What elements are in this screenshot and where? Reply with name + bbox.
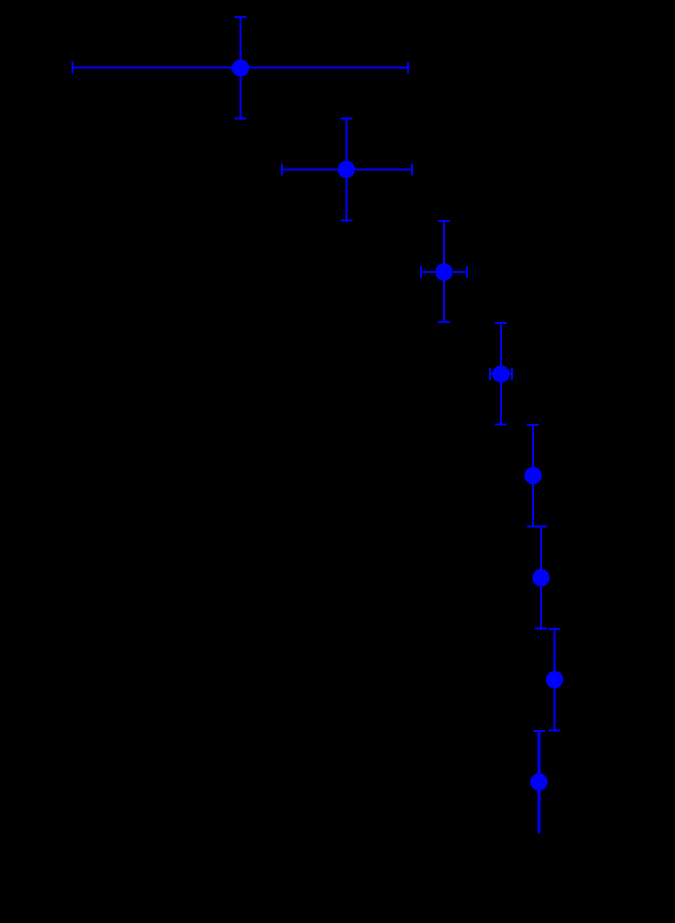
data point 6: error bars bbox=[535, 527, 547, 629]
data point 4: error bars bbox=[490, 323, 512, 425]
data point 8: marker bbox=[530, 773, 547, 790]
data point 2: error bars bbox=[282, 119, 412, 221]
data point 7: marker bbox=[546, 671, 563, 688]
data point 3: error bars bbox=[421, 221, 467, 322]
data point 6: marker bbox=[532, 569, 549, 586]
data point 2: marker bbox=[338, 161, 355, 178]
data point 1: error bars bbox=[73, 17, 408, 118]
data point 1: marker bbox=[232, 59, 249, 76]
data point 3: marker bbox=[435, 263, 452, 280]
data point 8: error bars (bottom clipped, no cap) bbox=[533, 731, 545, 834]
data point 5: marker bbox=[524, 467, 541, 484]
data point 5: error bars bbox=[527, 425, 539, 527]
data point 4: marker bbox=[492, 365, 509, 382]
data point 7: error bars bbox=[549, 629, 561, 730]
